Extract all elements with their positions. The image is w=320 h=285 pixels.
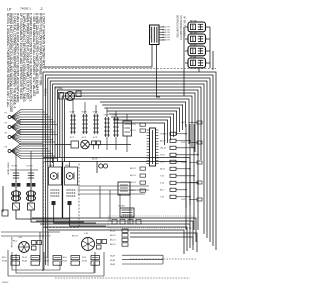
wire dashed surface unit enclosure bbox=[44, 162, 80, 228]
svg-text:SPARK MOD: SPARK MOD bbox=[148, 26, 151, 39]
wire right distribution verticals bbox=[186, 124, 198, 230]
wire burner module drop bbox=[198, 68, 200, 72]
spark module pin labels bbox=[159, 27, 170, 42]
wire ignitor common vertical bbox=[183, 27, 185, 96]
wire bottom harness bus bbox=[32, 218, 196, 254]
wire drop D3 bbox=[119, 194, 121, 208]
wire N run bbox=[130, 237, 193, 250]
wire mid bus B bbox=[45, 162, 186, 209]
burner switch S3 bbox=[188, 44, 206, 56]
wire burner switch S4 right lead bbox=[206, 62, 211, 64]
wire switch bus vertical 2 bbox=[212, 51, 214, 70]
wire burner switch S3 right lead bbox=[206, 50, 211, 52]
connector P4 fanout bbox=[5, 144, 58, 159]
svg-text:GY-1: GY-1 bbox=[181, 122, 185, 124]
svg-text:GY-5: GY-5 bbox=[181, 199, 185, 201]
switch S13 cell bbox=[62, 256, 80, 266]
wire dashed bottom run bbox=[55, 277, 190, 279]
svg-text:LR SW: LR SW bbox=[190, 44, 197, 46]
connector P1 fanout bbox=[5, 110, 58, 125]
wire igniter riser 2 bbox=[69, 162, 71, 168]
wire burner switch S3 left lead bbox=[185, 50, 188, 52]
wire igniter IG1 lead bbox=[54, 205, 96, 223]
wire lower drop E2 bbox=[47, 232, 49, 266]
valve V2 bbox=[27, 166, 36, 211]
wire motor M3 drop bbox=[94, 252, 96, 273]
svg-text:W-BK: W-BK bbox=[82, 112, 88, 114]
svg-text:BK GY: BK GY bbox=[72, 236, 79, 238]
resistor load R8 row bbox=[160, 181, 199, 184]
lamp E1 oven light P GRN bbox=[55, 88, 81, 101]
wire L1 run bbox=[130, 233, 197, 252]
svg-text:BK-22: BK-22 bbox=[130, 168, 136, 170]
svg-text:OVEN LT: OVEN LT bbox=[160, 134, 169, 136]
wire dashed neutral run bbox=[130, 258, 196, 260]
svg-text:-2: -2 bbox=[40, 7, 43, 11]
notes text block (rotated) bbox=[6, 13, 46, 112]
svg-text:IGN-1: IGN-1 bbox=[49, 165, 54, 167]
svg-text:W-4R: W-4R bbox=[110, 264, 116, 266]
resistor load R4 row bbox=[160, 153, 199, 156]
valve V5 pilot bbox=[92, 159, 108, 174]
wire valve riser 1 bbox=[15, 154, 17, 169]
svg-text:GY-3: GY-3 bbox=[181, 162, 185, 164]
svg-text:BK-2: BK-2 bbox=[13, 241, 17, 243]
switch S14 cell bbox=[82, 256, 100, 266]
wire oven circuit run C bbox=[78, 193, 146, 195]
resistor load R6 row bbox=[160, 167, 191, 170]
switch S11 cell bbox=[22, 256, 40, 266]
wire motor M1 right lead bbox=[90, 144, 132, 146]
wire bottom loop A bbox=[12, 252, 60, 270]
svg-text:BK-25: BK-25 bbox=[130, 190, 136, 192]
resistor load R5 row bbox=[160, 160, 187, 163]
svg-text:9. CIRCUIT SHOWN IN STANDBY MO: 9. CIRCUIT SHOWN IN STANDBY MODE. bbox=[42, 13, 46, 70]
wire spark module lead 1 bbox=[45, 45, 153, 68]
wire valve V1 lead bbox=[16, 210, 70, 219]
wire igniter riser 1 bbox=[53, 158, 55, 168]
valve V1 bbox=[12, 166, 21, 211]
fuse F rows right margin bbox=[181, 121, 202, 201]
svg-text:W-7B: W-7B bbox=[82, 261, 88, 263]
wire spark module lead 2 bbox=[157, 45, 161, 98]
wire igniter IG2 lead bbox=[70, 205, 106, 226]
svg-text:CN-02: CN-02 bbox=[2, 282, 9, 284]
wire burner switch S4 left lead bbox=[185, 62, 188, 64]
svg-text:GY-4: GY-4 bbox=[181, 182, 185, 184]
wire mid bus A bbox=[43, 158, 190, 206]
switch S10 cell bbox=[2, 256, 20, 266]
resistor load R1 row bbox=[160, 132, 187, 135]
svg-text:P GRN: P GRN bbox=[55, 88, 63, 91]
svg-text:C-81: C-81 bbox=[18, 237, 22, 239]
connector J3 bbox=[93, 112, 99, 140]
svg-text:BK-20: BK-20 bbox=[130, 124, 136, 126]
connector P3 fanout bbox=[5, 130, 58, 145]
connector P2 fanout bbox=[5, 120, 58, 135]
connector J5 bbox=[113, 115, 119, 151]
svg-text:LP: LP bbox=[7, 8, 12, 12]
burner switch S4 bbox=[188, 56, 206, 68]
svg-text:BK-11: BK-11 bbox=[110, 230, 116, 232]
svg-text:RF SW: RF SW bbox=[190, 20, 197, 22]
wire oven circuit run B bbox=[78, 189, 150, 191]
resistor load R9 row bbox=[160, 188, 187, 191]
svg-text:C-82: C-82 bbox=[84, 233, 88, 235]
svg-text:BK-24: BK-24 bbox=[130, 182, 136, 184]
connector J4 bbox=[104, 115, 110, 151]
motor M1 convection fan bbox=[71, 140, 101, 149]
wire motor M1 left lead bbox=[55, 144, 71, 146]
svg-text:IGN-2: IGN-2 bbox=[65, 165, 70, 167]
svg-text:BK-W: BK-W bbox=[92, 159, 97, 161]
resistor load R7 row bbox=[160, 174, 195, 177]
spark igniter IG2 bbox=[65, 165, 78, 205]
wire drop D2 bbox=[109, 190, 111, 221]
resistor load R2 row bbox=[160, 139, 191, 142]
wire dotted clock boundary bbox=[108, 216, 194, 228]
wire burner switch S1 left lead bbox=[185, 26, 188, 28]
svg-text:GY-2: GY-2 bbox=[181, 142, 185, 144]
svg-text:74005 1: 74005 1 bbox=[20, 7, 31, 11]
wire burner switch S1 right lead bbox=[206, 26, 211, 28]
connector CN1 control board strip bbox=[147, 128, 159, 166]
relay K2 box bbox=[123, 121, 132, 152]
motor M2 bake blower bbox=[10, 237, 42, 252]
wire main harness bus nested lines bbox=[43, 72, 216, 271]
wire right harness bus nested lines bbox=[100, 102, 186, 145]
wire lower feed A bbox=[1, 231, 60, 233]
wire burner switch S2 left lead bbox=[185, 38, 188, 40]
svg-text:W-3B: W-3B bbox=[2, 261, 8, 263]
svg-text:W-3R: W-3R bbox=[110, 260, 116, 262]
wire drop D4 bbox=[129, 186, 131, 224]
svg-text:BK-12: BK-12 bbox=[110, 235, 116, 237]
svg-text:SURFACE IGNITORS: SURFACE IGNITORS bbox=[176, 15, 179, 38]
svg-text:OVEN VALVE: OVEN VALVE bbox=[7, 162, 10, 175]
svg-text:BK-13: BK-13 bbox=[110, 240, 116, 242]
svg-text:BK-10: BK-10 bbox=[160, 141, 166, 143]
svg-text:BK-21: BK-21 bbox=[130, 130, 136, 132]
svg-text:MOTOR BK: MOTOR BK bbox=[10, 237, 12, 248]
wire burner switch S2 right lead bbox=[206, 38, 211, 40]
burner switch S1 bbox=[188, 20, 206, 32]
terminal strip pins bbox=[112, 220, 141, 225]
wire drop D1 bbox=[99, 186, 101, 218]
svg-text:BK-14: BK-14 bbox=[110, 244, 116, 246]
svg-text:LF SW: LF SW bbox=[190, 56, 196, 58]
svg-text:W-6B: W-6B bbox=[62, 261, 68, 263]
wire bottom loop B bbox=[16, 254, 94, 273]
ground chassis stud bbox=[2, 186, 8, 216]
wire igniter mid drop bbox=[62, 162, 64, 218]
svg-text:W-BK OV: W-BK OV bbox=[42, 236, 51, 238]
svg-text:GY-R1: GY-R1 bbox=[12, 166, 19, 168]
svg-text:W-2R: W-2R bbox=[110, 255, 116, 257]
resistor load R3 row bbox=[160, 146, 195, 149]
relay contact rows K3 bbox=[130, 123, 146, 192]
wire oven circuit run A bbox=[78, 185, 150, 187]
wire lower feed B bbox=[1, 235, 44, 237]
connector J1 bbox=[70, 112, 76, 140]
wire valve group top link bbox=[10, 169, 38, 171]
wire lower drop E1 bbox=[39, 232, 41, 262]
motor M3 circulation fan bbox=[72, 233, 107, 251]
wire dashed console boundary top bbox=[45, 68, 217, 70]
svg-text:W-4B: W-4B bbox=[22, 261, 28, 263]
svg-text:W-BK: W-BK bbox=[93, 112, 99, 114]
relay K1 DSI board bbox=[118, 206, 134, 218]
svg-text:DSI BD: DSI BD bbox=[118, 206, 125, 208]
wire valve V2 lead bbox=[31, 210, 84, 222]
spark igniter IG1 bbox=[49, 165, 62, 205]
svg-text:TOP BURNER SWITCH: TOP BURNER SWITCH bbox=[179, 15, 181, 40]
resistor load R10 row bbox=[160, 195, 191, 198]
wire stub risers bbox=[73, 99, 127, 121]
svg-text:W-5B: W-5B bbox=[44, 261, 50, 263]
wire switch bus right vertical bbox=[209, 27, 211, 68]
svg-text:OR-12: OR-12 bbox=[160, 148, 167, 150]
svg-text:GY-R2: GY-R2 bbox=[27, 166, 34, 168]
svg-text:RR SW: RR SW bbox=[190, 32, 197, 34]
svg-text:W-BK: W-BK bbox=[70, 112, 76, 114]
wire valve riser 2 bbox=[30, 151, 32, 168]
spark module U1 bbox=[148, 25, 159, 45]
svg-text:P GRN: P GRN bbox=[45, 88, 48, 96]
terminal block TB2 rows bbox=[110, 255, 163, 266]
svg-text:LF-6 OR: LF-6 OR bbox=[162, 40, 170, 42]
svg-text:BK-23: BK-23 bbox=[130, 175, 136, 177]
surface ignitor labels bbox=[176, 15, 185, 40]
connector J2 bbox=[82, 112, 88, 140]
wire bottom loop C bbox=[8, 250, 104, 276]
thermostat TH1 bbox=[118, 182, 130, 195]
terminal block TB1 rows bbox=[110, 229, 128, 246]
switch S12 cell bbox=[44, 256, 62, 266]
burner switch S2 bbox=[188, 32, 206, 44]
wire motor M2 drop bbox=[43, 252, 45, 270]
